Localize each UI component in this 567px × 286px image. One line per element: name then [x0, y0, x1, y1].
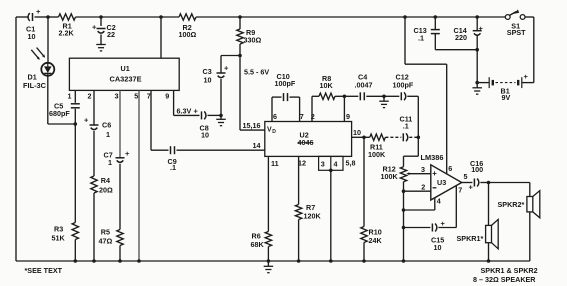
wire node L down to U2 pin9: [343, 96, 345, 121]
wire C8 to node K: [208, 114, 222, 116]
wire pins3,4 to bus: [330, 170, 332, 261]
resistor R5 47ohm: [99, 227, 124, 245]
svg-text:10K: 10K: [320, 81, 334, 90]
wire node F to node G: [405, 16, 435, 18]
svg-text:1: 1: [106, 130, 110, 139]
svg-text:6.3V: 6.3V: [177, 106, 192, 115]
junction R6-bus-ground: [267, 259, 271, 263]
svg-text:10: 10: [353, 128, 361, 137]
svg-text:100pF: 100pF: [275, 79, 296, 88]
pin 12 label U2: [298, 159, 306, 168]
wire R10 to bus: [363, 243, 365, 262]
wire C3 up to node E: [221, 56, 240, 74]
wire U2 pin6 up: [272, 97, 282, 121]
junction R10-bus: [362, 259, 366, 263]
svg-text:220: 220: [455, 33, 467, 42]
ground (node K): [216, 115, 226, 125]
ground (C2): [96, 45, 106, 51]
ground (node M): [379, 96, 389, 107]
svg-text:2: 2: [88, 91, 92, 100]
node J: [74, 122, 78, 126]
pin 9 label U2: [346, 112, 350, 121]
svg-text:R3: R3: [54, 224, 63, 233]
node K: [219, 114, 223, 118]
wire bottom ground bus: [16, 260, 530, 262]
wire node C down to U1 top: [160, 17, 162, 58]
capacitor C9 .1: [168, 146, 177, 172]
capacitor C2 22uF: [92, 23, 116, 39]
ground (node W): [472, 83, 482, 95]
resistor R6 68K: [251, 231, 272, 249]
svg-text:2: 2: [421, 183, 425, 192]
svg-text:.1: .1: [403, 122, 409, 131]
wire node Q to node R: [403, 191, 405, 210]
wire node A down to D1: [47, 17, 49, 63]
switch S1 SPST: [505, 10, 526, 38]
svg-text:+: +: [84, 115, 89, 124]
svg-text:47Ω: 47Ω: [99, 236, 113, 245]
wire R1 to node B: [76, 16, 102, 18]
op-amp U3 LM386: [421, 153, 462, 200]
pin 5,8 label U2: [346, 159, 356, 168]
capacitor C3 10uF: [203, 64, 230, 85]
node A (D1 branch): [46, 15, 50, 19]
svg-text:2.2K: 2.2K: [59, 28, 75, 37]
node S (C15 branch): [402, 226, 406, 230]
wire U2 pin2 up: [312, 96, 319, 121]
wire U2 pin12 to R7: [298, 156, 300, 204]
capacitor C7 1uF: [104, 149, 131, 167]
battery B1 9V: [477, 72, 534, 102]
svg-text:4: 4: [437, 196, 441, 205]
wire U3 pin4 to node R: [404, 196, 441, 210]
wire R4 to bus: [93, 193, 95, 261]
node W (B1 minus): [475, 81, 479, 85]
wire right edge down to B1: [533, 17, 535, 83]
wire node R to node S: [403, 210, 405, 228]
svg-text:10: 10: [28, 32, 36, 41]
svg-text:3: 3: [421, 165, 425, 174]
wire node C to R2: [161, 16, 179, 18]
wire U2 pin10 to node P: [352, 136, 364, 138]
wire C1 to node A: [35, 16, 49, 18]
speaker SPKR2: [498, 191, 540, 218]
svg-text:5,8: 5,8: [346, 159, 356, 168]
capacitor C16 100uF: [469, 159, 484, 192]
svg-text:8 – 32Ω SPEAKER: 8 – 32Ω SPEAKER: [473, 275, 536, 284]
svg-text:5: 5: [464, 172, 468, 181]
junction R4-bus: [92, 259, 96, 263]
svg-text:+: +: [524, 72, 529, 81]
wire C12 right and down to node N: [407, 96, 418, 137]
svg-text:+: +: [441, 219, 446, 228]
wire C15 to U3 pin7: [438, 186, 462, 228]
node C (U1 supply): [159, 15, 163, 19]
svg-text:10: 10: [434, 243, 442, 252]
svg-text:68K: 68K: [251, 240, 265, 249]
wire R3 to bus: [74, 240, 76, 262]
wire C10 to pin7: [290, 97, 300, 121]
node L (U2 pin9): [343, 95, 347, 99]
junction SPKR1-bus: [487, 259, 491, 263]
svg-text:10: 10: [201, 131, 209, 140]
svg-text:6: 6: [448, 164, 452, 173]
node P (R10 branch): [362, 136, 366, 140]
wire D1 down and right to node J: [48, 76, 76, 124]
svg-text:R5: R5: [101, 227, 110, 236]
pin 7 label U1: [147, 91, 151, 100]
wire U1 pin2 to C6: [93, 90, 95, 125]
wire U1 pin1 to C5: [74, 90, 76, 102]
wire node F down to U3 pin6: [405, 17, 452, 174]
junction R3-bus: [74, 259, 78, 263]
wire R6 to bus: [267, 247, 269, 262]
wire node S to bus: [403, 228, 405, 262]
label *SEE TEXT: [25, 266, 63, 275]
wire node J down to R3: [74, 124, 76, 223]
wire R12 wiper to U3 pin3: [406, 165, 431, 175]
wire SPKR2 to bus corner: [529, 212, 531, 261]
photo-diode D1 FIL-3C: [23, 48, 54, 91]
node F (U3 supply branch): [403, 15, 407, 19]
wire node Q to U3 pin2: [404, 183, 431, 192]
wire R9 to node E: [239, 44, 241, 56]
svg-text:R4: R4: [101, 176, 110, 185]
svg-text:5: 5: [134, 91, 138, 100]
label 8-32 ohm speaker: [473, 275, 536, 284]
capacitor C13 .1: [414, 26, 440, 42]
wire node K up to C3: [220, 79, 222, 115]
node R (U3 pin4): [402, 208, 406, 212]
speaker SPKR1: [457, 219, 499, 248]
svg-text:2: 2: [311, 112, 315, 121]
pin 10 label U2: [353, 128, 361, 137]
wire R12 to node Q: [403, 182, 405, 192]
svg-text:4: 4: [334, 159, 338, 168]
svg-text:4046: 4046: [298, 138, 314, 147]
resistor R7 120K: [295, 203, 321, 220]
svg-text:+: +: [125, 149, 130, 158]
node B (C2 branch): [99, 15, 103, 19]
capacitor C11 .1: [400, 115, 413, 142]
pin 2 label U2: [311, 112, 315, 121]
pin 7 label U2: [300, 112, 304, 121]
wire node N down to R12 top: [404, 137, 419, 156]
svg-text:5.5 - 6V: 5.5 - 6V: [244, 67, 269, 76]
capacitor C1: [26, 7, 41, 41]
svg-text:*SEE TEXT: *SEE TEXT: [25, 266, 63, 275]
pin 3 label U1: [115, 91, 119, 100]
svg-text:C6: C6: [102, 121, 111, 130]
wire node S to C15: [404, 227, 431, 229]
wire node P down to R10: [363, 137, 365, 226]
svg-text:U1: U1: [121, 64, 130, 73]
svg-text:24K: 24K: [369, 236, 383, 245]
svg-text:3: 3: [321, 159, 325, 168]
svg-text:LM386: LM386: [421, 153, 444, 162]
label SPKR1 & SPKR2: [481, 266, 538, 275]
wire U1 pin5 to bus: [138, 90, 140, 261]
node H (C14 branch): [475, 15, 479, 19]
junction R12col-bus: [402, 259, 406, 263]
junction R5-bus: [118, 259, 122, 263]
svg-text:20Ω: 20Ω: [99, 185, 113, 194]
wire C14 to node W: [476, 35, 478, 83]
node E: [238, 54, 242, 58]
wire node L to C4: [344, 95, 358, 97]
wire SPKR1 to bus: [488, 243, 490, 261]
capacitor C10 100pF: [275, 72, 296, 101]
svg-text:1: 1: [108, 158, 112, 167]
svg-text:100K: 100K: [368, 150, 386, 159]
svg-text:+: +: [36, 7, 41, 16]
svg-text:3: 3: [115, 91, 119, 100]
svg-text:.0047: .0047: [355, 80, 373, 89]
svg-text:+: +: [194, 107, 199, 116]
pin 5 label U1: [134, 91, 138, 100]
svg-text:7: 7: [458, 186, 462, 195]
PLL U2 4046: [265, 122, 352, 157]
wire U2 pin11 to R6: [267, 156, 269, 231]
pin 5 label U3: [464, 172, 468, 181]
svg-text:100Ω: 100Ω: [179, 30, 197, 39]
svg-text:D1: D1: [28, 72, 37, 81]
wire U1 pin9 down: [174, 90, 200, 115]
pin 11 label U2: [271, 159, 279, 168]
wire U1 pin7 down: [151, 90, 169, 150]
svg-text:+: +: [224, 64, 229, 73]
wire R2 to node D: [196, 16, 240, 18]
wire node D to node F: [240, 16, 405, 18]
capacitor C8 10uF: [200, 111, 210, 139]
svg-text:22: 22: [107, 30, 115, 39]
capacitor C6 1uF: [84, 115, 111, 139]
svg-text:9: 9: [346, 112, 350, 121]
resistor R11 100K: [364, 134, 386, 159]
wire C6 to R4: [93, 131, 95, 176]
resistor R3 51K: [52, 223, 79, 243]
svg-text:SPKR1 & SPKR2: SPKR1 & SPKR2: [481, 266, 538, 275]
resistor R10 24K: [361, 227, 383, 246]
resistor R4 20ohm: [91, 176, 113, 194]
ground (bus at R6): [264, 261, 274, 273]
wire node M to C12: [384, 95, 399, 97]
wire C5 to node J: [74, 109, 76, 124]
svg-text:9: 9: [165, 91, 169, 100]
wire node E down to U2 VD: [240, 56, 265, 131]
op-amp U1 CA3237E: [69, 58, 179, 90]
svg-text:+: +: [479, 24, 484, 33]
svg-text:D: D: [272, 129, 276, 135]
svg-text:9V: 9V: [502, 93, 511, 102]
wire R11 to C11: [385, 136, 401, 138]
wire C4 to node M: [366, 95, 384, 97]
wire C9 to U2 pin14: [177, 149, 265, 151]
node M: [382, 95, 386, 99]
svg-text:11: 11: [271, 159, 279, 168]
svg-text:120K: 120K: [304, 211, 322, 220]
wire node B down to C2: [100, 17, 102, 26]
pin 14 label U2: [253, 141, 261, 150]
svg-text:10: 10: [204, 75, 212, 84]
wire C7 to R5: [119, 164, 121, 230]
wire R7 to bus: [298, 220, 300, 262]
wire C13 down-right to node V: [435, 34, 477, 50]
wire node T down to SPKR1: [488, 183, 490, 226]
resistor R9 330ohm: [237, 28, 262, 44]
svg-text:680pF: 680pF: [49, 109, 70, 118]
wire node B to node C: [101, 16, 161, 18]
capacitor C15 10uF: [431, 219, 446, 252]
pin 1 label U1: [68, 91, 72, 100]
wire top rail segment (corner to C1): [16, 16, 28, 18]
junction R7-bus: [297, 259, 301, 263]
svg-text:51K: 51K: [52, 233, 66, 242]
node N: [417, 136, 421, 140]
svg-text:100K: 100K: [381, 172, 399, 181]
node G (C13 branch): [434, 15, 438, 19]
wire node A to R1: [48, 16, 59, 18]
svg-text:FIL-3C: FIL-3C: [23, 81, 47, 90]
svg-text:100: 100: [471, 165, 483, 174]
node V: [475, 48, 479, 52]
label 6.3V +: [177, 106, 199, 115]
wire node H down to C14: [476, 17, 478, 31]
wire S1 to top-right corner: [525, 16, 534, 18]
svg-text:SPKR1*: SPKR1*: [457, 234, 484, 243]
svg-text:1: 1: [68, 91, 72, 100]
pin 9 label U1: [165, 91, 169, 100]
svg-text:7: 7: [300, 112, 304, 121]
pins 3,4 box U2: [319, 156, 343, 172]
svg-text:7: 7: [147, 91, 151, 100]
wire node G down to C13: [434, 17, 436, 30]
svg-text:15,16: 15,16: [243, 121, 261, 130]
svg-text:SPKR2*: SPKR2*: [498, 200, 525, 209]
capacitor C14 220uF: [454, 24, 484, 42]
wire R8 to node L: [335, 95, 344, 97]
pin 6 label U2: [273, 112, 277, 121]
capacitor C5 680pF: [49, 101, 80, 118]
wire node G to node H: [435, 16, 477, 18]
svg-text:U3: U3: [437, 178, 446, 187]
capacitor C4 .0047: [355, 72, 373, 100]
node T (speaker junction): [487, 181, 491, 185]
svg-text:14: 14: [253, 141, 261, 150]
label 5.5 - 6V: [244, 67, 269, 76]
resistor R2 100ohm: [179, 14, 197, 39]
pin 2 label U1: [88, 91, 92, 100]
wire C11 to node N: [409, 136, 418, 138]
svg-text:+: +: [432, 169, 437, 178]
resistor R8 10K: [319, 74, 335, 99]
wire left edge (V+ feed down to ground bus): [15, 17, 17, 261]
wire C16 to node T: [480, 182, 488, 184]
wire node T to SPKR2: [489, 183, 530, 197]
wire node D down to R9: [239, 17, 241, 29]
resistor R1 2.2K: [59, 14, 76, 38]
capacitor C12 100pF: [393, 72, 414, 100]
node D (R9 branch): [238, 15, 242, 19]
wire U1 pin3 to C7: [119, 90, 121, 157]
svg-text:SPST: SPST: [507, 28, 526, 37]
svg-text:.1: .1: [418, 33, 424, 42]
svg-text:+: +: [469, 183, 474, 192]
svg-text:+: +: [92, 23, 97, 32]
wire R5 to bus: [119, 246, 121, 262]
wire U3 output to C16: [462, 182, 473, 184]
svg-text:330Ω: 330Ω: [244, 35, 262, 44]
wire C2 to ground: [100, 35, 102, 45]
svg-text:V: V: [267, 127, 272, 134]
node Q (R12 bottom, U3 pin2): [402, 189, 406, 193]
junction pins3,4-bus: [329, 259, 333, 263]
svg-text:CA3237E: CA3237E: [110, 75, 142, 84]
svg-text:100pF: 100pF: [393, 80, 414, 89]
svg-text:.1: .1: [170, 163, 176, 172]
svg-text:6: 6: [273, 112, 277, 121]
potentiometer R12 100K: [381, 156, 407, 182]
junction pin5-bus: [137, 259, 141, 263]
wire node H to S1: [477, 16, 505, 18]
pin 15,16 label U2: [243, 121, 261, 130]
